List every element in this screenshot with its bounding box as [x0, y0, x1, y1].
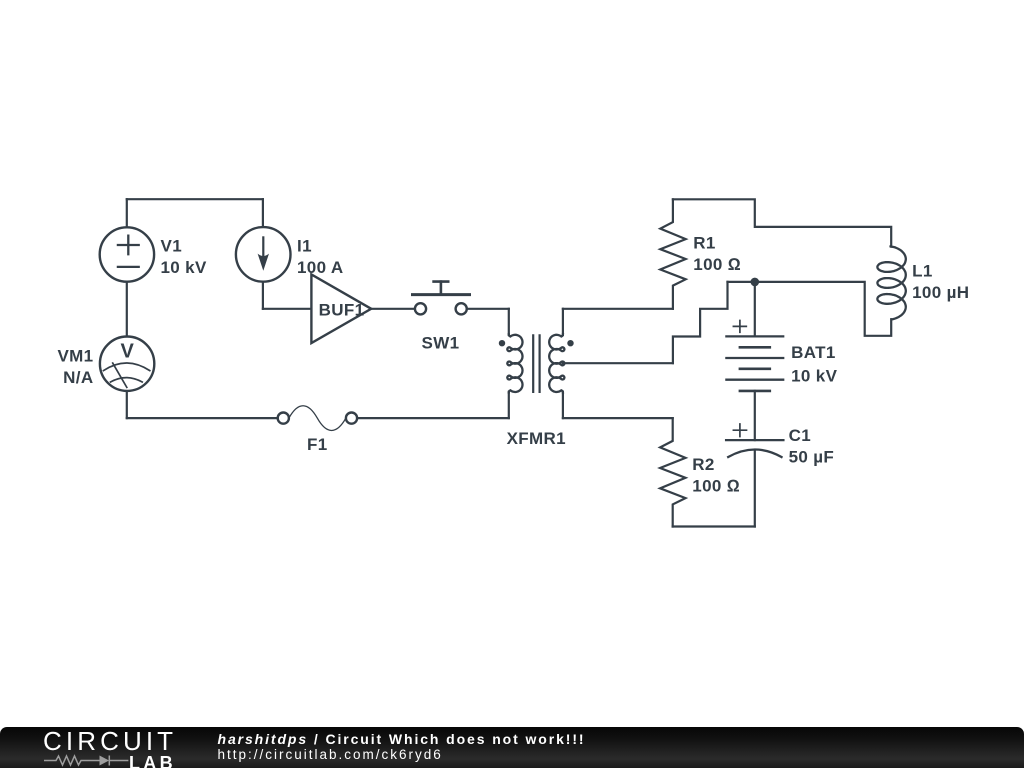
- label C1 value: [789, 426, 835, 467]
- wire V1 top to top rail: [126, 199, 128, 227]
- wire staircase tap to node: [673, 282, 728, 363]
- wire XFMR1 secondary tap to staircase: [563, 362, 673, 364]
- svg-text:R2: R2: [692, 455, 714, 474]
- label VM1 value: [57, 346, 93, 387]
- resistor R2: [660, 418, 685, 526]
- transformer XFMR1 polarity dot primary: [499, 340, 505, 346]
- label I1 value: [297, 236, 343, 276]
- capacitor C1: [726, 424, 783, 457]
- wire BUF1 output to SW1: [371, 308, 415, 310]
- fuse F1: [278, 406, 357, 431]
- wire C1 bottom lead: [754, 450, 756, 526]
- wire XFMR1 secondary bottom lead: [562, 392, 564, 418]
- wire F1 to XFMR1 primary bottom: [357, 417, 509, 419]
- node junction dot: [751, 278, 760, 287]
- svg-text:V: V: [120, 341, 134, 363]
- wire secondary bottom to R2 top: [563, 417, 673, 419]
- svg-text:100 µH: 100 µH: [912, 283, 969, 302]
- footer bar: [0, 727, 1024, 768]
- svg-text:100 Ω: 100 Ω: [692, 477, 740, 496]
- transformer XFMR1 core: [533, 335, 539, 392]
- footer url: [218, 747, 443, 762]
- voltage source V1: [100, 227, 154, 281]
- transformer XFMR1 polarity dot secondary: [567, 340, 573, 346]
- wire R1 top rail to L1 top: [673, 199, 891, 246]
- wire top rail V1 to I1: [127, 198, 263, 200]
- CircuitLab logo LAB: [129, 753, 176, 768]
- battery BAT1: [726, 282, 783, 391]
- CircuitLab logo schematic doodle: [44, 754, 129, 767]
- doodle diode: [100, 756, 110, 766]
- svg-text:100 Ω: 100 Ω: [693, 255, 741, 274]
- label L1 value: [912, 262, 969, 303]
- wire XFMR1 primary top lead: [508, 309, 510, 335]
- wire R2 bottom to C1 bottom: [673, 525, 755, 527]
- wire I1 to BUF1 input: [263, 308, 312, 310]
- svg-text:10 kV: 10 kV: [791, 367, 837, 386]
- doodle resistor: [44, 756, 100, 765]
- svg-text:L1: L1: [912, 262, 933, 281]
- svg-text:F1: F1: [307, 435, 328, 454]
- label R1 value: [693, 234, 741, 275]
- wire I1 bottom lead: [262, 282, 264, 309]
- label V1 value: [161, 236, 207, 276]
- wire VM1 to F1: [127, 417, 278, 419]
- label BAT1 value: [791, 343, 837, 386]
- wire secondary top to R1 bottom: [563, 308, 673, 310]
- svg-text:BAT1: BAT1: [791, 343, 836, 362]
- svg-text:VM1: VM1: [57, 346, 93, 365]
- wire BAT1 bottom to C1 top: [754, 391, 756, 440]
- transformer XFMR1 secondary winding: [549, 334, 564, 392]
- switch SW1: [413, 282, 470, 315]
- voltmeter VM1: [100, 337, 154, 391]
- svg-text:R1: R1: [693, 234, 715, 253]
- svg-text:I1: I1: [297, 236, 312, 255]
- transformer XFMR1 primary winding: [507, 334, 522, 392]
- CircuitLab logo wordmark: [43, 726, 177, 757]
- svg-text:N/A: N/A: [63, 368, 93, 387]
- svg-text:BUF1: BUF1: [319, 300, 365, 319]
- current source I1: [236, 227, 291, 282]
- wire VM1 bottom lead: [126, 391, 128, 418]
- svg-text:100 A: 100 A: [297, 258, 343, 277]
- inductor L1: [877, 246, 905, 319]
- resistor R1: [660, 199, 685, 308]
- svg-text:C1: C1: [789, 426, 811, 445]
- wire SW1 to XFMR1 primary: [467, 308, 509, 310]
- label R2 value: [692, 455, 740, 496]
- svg-text:XFMR1: XFMR1: [507, 429, 566, 448]
- svg-text:V1: V1: [161, 236, 183, 255]
- wire I1 top lead: [262, 199, 264, 226]
- wire XFMR1 primary bottom lead: [508, 392, 510, 418]
- footer title: [218, 731, 586, 747]
- svg-text:SW1: SW1: [422, 333, 460, 352]
- wire V1 bottom to VM1 top: [126, 282, 128, 336]
- wire XFMR1 secondary top lead: [562, 309, 564, 335]
- op-amp buffer BUF1: [311, 274, 371, 343]
- svg-text:50 µF: 50 µF: [789, 448, 835, 467]
- wire L1 bottom to node rail: [728, 282, 892, 336]
- svg-text:10 kV: 10 kV: [161, 258, 207, 277]
